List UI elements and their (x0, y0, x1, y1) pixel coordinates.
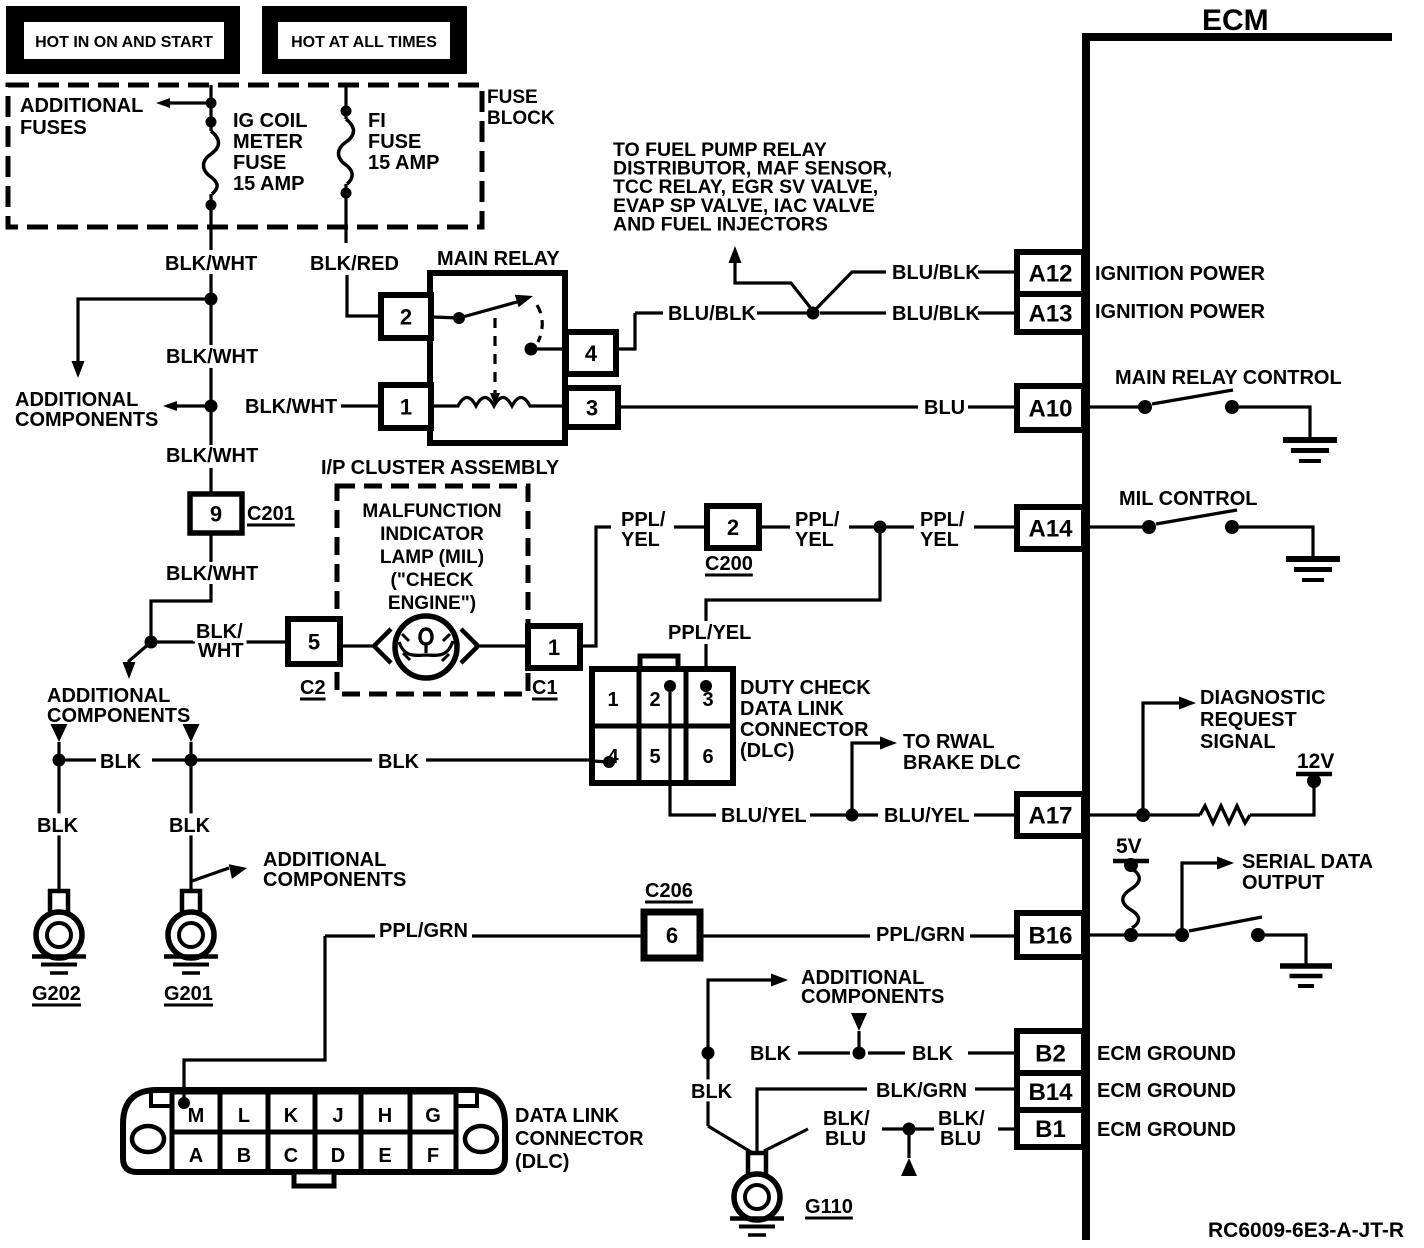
svg-text:HOT AT ALL TIMES: HOT AT ALL TIMES (291, 34, 437, 51)
arrowhead additional comp left B (183, 724, 200, 742)
wire arrow to additional components 2 (174, 404, 211, 407)
wire blk/wht to junction 3 (151, 584, 211, 642)
node blk bus left (53, 754, 66, 767)
data link connector body (123, 1090, 505, 1172)
serial switch right node (1251, 928, 1265, 942)
arrowhead to fuel pump (729, 246, 742, 263)
wire blk/blu diag (764, 1129, 808, 1151)
arrowhead to rwal (880, 737, 897, 750)
svg-text:D: D (331, 1145, 345, 1167)
wire blk/blu mid2 (915, 1127, 934, 1130)
svg-text:RC6009-6E3-A-JT-R: RC6009-6E3-A-JT-R (1208, 1219, 1404, 1242)
I/P cluster dashed box (337, 486, 528, 694)
label TO FUEL PUMP RELAY note (613, 139, 892, 235)
label IG COIL METER FUSE 15 AMP (233, 110, 307, 195)
fuse FI FUSE 15 AMP symbol (339, 119, 354, 184)
svg-text:15 AMP: 15 AMP (233, 173, 305, 195)
svg-text:PPL/: PPL/ (621, 509, 666, 531)
svg-text:ADDITIONAL: ADDITIONAL (15, 389, 138, 411)
wire lamp to pin1 (480, 644, 528, 647)
wire duty pin2 drop (670, 692, 716, 815)
wire g202 drop (57, 760, 60, 889)
svg-text:DATA LINK: DATA LINK (740, 698, 845, 720)
label TO RWAL BRAKE DLC (903, 731, 1021, 774)
svg-text:BLK/WHT: BLK/WHT (166, 445, 258, 467)
svg-text:YEL: YEL (920, 529, 959, 551)
wire ppl/grn right (700, 934, 870, 937)
svg-text:B: B (237, 1145, 251, 1167)
svg-text:BLK/GRN: BLK/GRN (876, 1080, 967, 1102)
svg-text:MALFUNCTION: MALFUNCTION (362, 501, 501, 522)
wire blk/grn riser (757, 1089, 867, 1152)
arrowhead additional comp right (229, 864, 247, 879)
mil control switch right node (1225, 520, 1239, 534)
svg-text:AND FUEL INJECTORS: AND FUEL INJECTORS (613, 213, 828, 235)
ECM pin A12 (1017, 252, 1084, 294)
additional comp b2 stem (857, 1031, 860, 1047)
svg-text:9: 9 (210, 501, 222, 526)
svg-text:CONNECTOR: CONNECTOR (515, 1128, 644, 1150)
data link connector letters (188, 1105, 441, 1167)
svg-text:3: 3 (586, 395, 598, 420)
svg-text:HOT IN ON AND START: HOT IN ON AND START (35, 34, 213, 51)
wire pin3 to BLU (618, 405, 918, 408)
relay dashed link arrowhead (490, 393, 500, 406)
svg-text:C: C (284, 1145, 298, 1167)
label ADDITIONAL COMPONENTS 1 (15, 389, 158, 431)
main relay pin 2 box (381, 295, 431, 338)
label C200 (705, 553, 753, 575)
wire switch to ground A10 (1239, 407, 1310, 438)
svg-text:4: 4 (585, 341, 598, 366)
svg-text:FI: FI (368, 110, 386, 132)
wire blk/wht below C201 (209, 533, 212, 562)
additional comp left B stem (189, 742, 192, 754)
label C2 (300, 677, 326, 699)
wire pin5 to lamp (340, 644, 372, 647)
svg-text:PPL/GRN: PPL/GRN (876, 924, 965, 946)
node ppl/yel junction (874, 521, 887, 534)
svg-text:SIGNAL: SIGNAL (1200, 731, 1276, 753)
svg-text:DATA LINK: DATA LINK (515, 1105, 620, 1127)
svg-text:BLU/BLK: BLU/BLK (892, 303, 980, 325)
data link connector bottom tab (294, 1172, 334, 1186)
node blk junction b2 (853, 1047, 866, 1060)
label ADDITIONAL COMPONENTS 3 (47, 685, 190, 727)
svg-text:FUSE: FUSE (233, 152, 286, 174)
svg-text:ECM GROUND: ECM GROUND (1097, 1080, 1236, 1102)
svg-text:(DLC): (DLC) (515, 1151, 569, 1173)
node blk/blu junction (903, 1123, 916, 1136)
svg-text:BLOCK: BLOCK (487, 108, 555, 129)
ECM pin B2 (1017, 1031, 1084, 1075)
serial switch arm (1189, 917, 1262, 931)
svg-text:DUTY CHECK: DUTY CHECK (740, 677, 871, 699)
arrowhead diagnostic request (1179, 697, 1196, 710)
wire ppl/yel drop (706, 527, 880, 621)
ground terminal G110 (730, 1153, 784, 1235)
svg-text:BLK/: BLK/ (938, 1108, 985, 1130)
label BLK/ WHT twoline a (193, 619, 246, 643)
node fi fuse bottom (341, 188, 352, 199)
label DUTY CHECK DATA LINK CONNECTOR (740, 677, 871, 762)
header box HOT AT ALL TIMES (262, 6, 467, 74)
wire blk bus into duty cell4 (592, 761, 609, 762)
arrowhead additional components 3 (123, 662, 136, 679)
svg-text:ADDITIONAL: ADDITIONAL (263, 849, 386, 871)
fuse block dashed box (8, 85, 482, 227)
svg-text:("CHECK: ("CHECK (391, 570, 474, 591)
wire blu/yel to A17 (974, 813, 1017, 816)
svg-text:(DLC): (DLC) (740, 740, 794, 762)
duty pin 3 node (700, 680, 712, 692)
svg-text:BLU/BLK: BLU/BLK (668, 303, 756, 325)
svg-text:INDICATOR: INDICATOR (380, 524, 484, 545)
wire blu/blk to junction (757, 311, 807, 314)
svg-text:BLK/WHT: BLK/WHT (165, 253, 257, 275)
svg-text:6: 6 (702, 746, 713, 768)
wire blk/blu mid (882, 1127, 903, 1130)
wire additional comp arrow bottom (708, 980, 772, 1053)
wire blk/blu to B1 (998, 1127, 1017, 1130)
wire A10 to switch (1090, 405, 1140, 408)
wire junction to label3 (886, 525, 914, 528)
wire junction to resistor (1150, 813, 1200, 816)
svg-text:WHT: WHT (198, 640, 244, 662)
node DLC pin M (178, 1097, 190, 1109)
data link connector notch right (456, 1090, 477, 1106)
svg-text:BLK: BLK (912, 1043, 954, 1065)
svg-text:5V: 5V (1116, 835, 1142, 858)
node blu/yel junction (846, 809, 859, 822)
node blk bus mid (185, 754, 198, 767)
svg-text:BLK: BLK (100, 751, 142, 773)
svg-text:A12: A12 (1028, 261, 1072, 288)
ECM boundary line (1086, 37, 1392, 1240)
svg-text:ADDITIONAL: ADDITIONAL (47, 685, 170, 707)
svg-text:C2: C2 (300, 677, 326, 699)
node fi fuse top (341, 106, 352, 117)
connector C201 pin 9 box (190, 494, 242, 533)
lamp bracket left (374, 629, 391, 663)
wire g201 branch diag (192, 868, 229, 881)
svg-text:1: 1 (607, 689, 618, 711)
ECM pin B14 (1017, 1073, 1084, 1110)
relay dashed link (493, 318, 496, 399)
node blk/wht junction 1 (205, 293, 218, 306)
svg-text:LAMP (MIL): LAMP (MIL) (380, 547, 484, 568)
5V terminal node (1124, 858, 1138, 872)
svg-text:BLK/WHT: BLK/WHT (245, 396, 337, 418)
wire blk to B2 (968, 1051, 1017, 1054)
header box HOT IN ON AND START (6, 6, 240, 74)
wire switch to ground B16 (1265, 935, 1306, 964)
node ig fuse upper (206, 117, 217, 128)
wire blk/red to pin2 (347, 275, 381, 316)
label BLK g202 (34, 813, 81, 837)
svg-text:ENGINE"): ENGINE") (388, 593, 476, 614)
mil control switch left node (1142, 520, 1156, 534)
arrowhead additional comp blk/blu (901, 1158, 917, 1176)
wire into DLC pin M (182, 1085, 185, 1103)
svg-text:2: 2 (400, 304, 412, 329)
data link connector right hole (465, 1126, 497, 1152)
svg-text:BLK/RED: BLK/RED (310, 253, 399, 275)
wire ppl/yel into duty pin3 (704, 644, 707, 686)
12V terminal bar (1296, 772, 1332, 777)
wire blk/grn to B14 (975, 1087, 1017, 1090)
label C1 (532, 677, 558, 699)
svg-text:BLU/YEL: BLU/YEL (721, 805, 807, 827)
ground terminal G201 (164, 891, 218, 973)
wire blk/wht trunk mid (209, 368, 212, 445)
data link connector notch left (151, 1090, 172, 1106)
node blu/blk junction (807, 307, 820, 320)
svg-text:IGNITION POWER: IGNITION POWER (1095, 263, 1266, 285)
svg-text:MAIN RELAY CONTROL: MAIN RELAY CONTROL (1115, 367, 1342, 389)
relay fixed contact (525, 343, 538, 356)
svg-text:A14: A14 (1028, 516, 1073, 543)
arrowhead additional fuses (156, 98, 170, 108)
wire blk/wht trunk to C201 (209, 468, 212, 494)
main relay control switch arm (1152, 390, 1233, 404)
svg-text:L: L (238, 1105, 250, 1127)
wire junction3 to C2 pin5 (151, 640, 288, 643)
wire branch to additional components 1 (78, 299, 211, 367)
svg-text:BLU/YEL: BLU/YEL (884, 805, 970, 827)
relay contact to pin4 (531, 347, 566, 350)
wire ppl/grn left 2 (472, 934, 644, 937)
wire to C200 (674, 525, 707, 528)
label G202 (32, 983, 81, 1005)
wire fi fuse top (344, 85, 347, 119)
wire fi fuse bottom (344, 184, 347, 243)
main relay control switch right node (1225, 400, 1239, 414)
main relay pin 3 box (566, 388, 618, 427)
fuse IG COIL METER FUSE 15 AMP symbol (204, 131, 219, 194)
wire ppl/grn left (325, 934, 375, 937)
node blk junction bottom (702, 1047, 715, 1060)
svg-text:FUSE: FUSE (487, 87, 538, 108)
svg-text:ADDITIONAL: ADDITIONAL (20, 95, 143, 117)
arrowhead additional components 2 (163, 401, 177, 411)
wire resistor to 12V (1250, 786, 1314, 815)
wire ppl/grn riser from DLC (184, 936, 325, 1100)
wire blk g110 diag (708, 1126, 751, 1152)
label FI FUSE 15 AMP (368, 110, 440, 174)
svg-text:SERIAL DATA: SERIAL DATA (1242, 851, 1373, 873)
svg-text:FUSE: FUSE (368, 131, 421, 153)
svg-text:FUSES: FUSES (20, 117, 87, 139)
wire blk bus 3 (426, 758, 592, 761)
main relay box (430, 273, 565, 443)
svg-text:1: 1 (400, 394, 412, 419)
svg-text:COMPONENTS: COMPONENTS (47, 705, 190, 727)
svg-text:G202: G202 (32, 983, 81, 1005)
svg-text:G: G (425, 1105, 441, 1127)
svg-text:BLK: BLK (750, 1043, 792, 1065)
svg-text:COMPONENTS: COMPONENTS (801, 986, 944, 1008)
label ADDITIONAL COMPONENTS bottom (801, 967, 944, 1008)
ECM pin A14 (1017, 507, 1084, 549)
wire ig coil fuse top (209, 85, 212, 131)
main relay control switch left node (1138, 400, 1152, 414)
blk/blu stem down (907, 1129, 910, 1158)
relay switch arm arrowhead (515, 295, 533, 307)
wire branch additional components 3 (129, 642, 151, 668)
ground mil control (1286, 559, 1340, 580)
label DIAGNOSTIC REQUEST SIGNAL (1200, 687, 1326, 753)
svg-text:IG COIL: IG COIL (233, 110, 307, 132)
wire junction to A13 label (820, 311, 886, 314)
wire pin4 riser to label (635, 311, 663, 314)
wire blk bus 2 (152, 758, 372, 761)
svg-text:B1: B1 (1035, 1116, 1066, 1143)
svg-text:PPL/: PPL/ (920, 509, 965, 531)
svg-text:MAIN RELAY: MAIN RELAY (437, 248, 560, 270)
wire blu/yel mid (810, 813, 846, 816)
svg-text:BLU: BLU (924, 397, 965, 419)
svg-text:COMPONENTS: COMPONENTS (263, 869, 406, 891)
svg-text:12V: 12V (1297, 750, 1334, 773)
svg-text:K: K (284, 1105, 299, 1127)
svg-text:5: 5 (308, 629, 320, 654)
ECM pin B16 (1017, 913, 1084, 957)
label MALFUNCTION INDICATOR LAMP (362, 501, 501, 614)
relay switch arm (459, 300, 524, 318)
label FUSE BLOCK (487, 87, 555, 129)
mil control switch arm (1156, 510, 1237, 524)
svg-text:YEL: YEL (795, 529, 834, 551)
wire junction diag to A12 (815, 272, 886, 310)
svg-text:E: E (378, 1145, 391, 1167)
svg-text:1: 1 (548, 635, 560, 660)
label ADDITIONAL COMPONENTS right (263, 849, 406, 891)
svg-text:M: M (188, 1105, 205, 1127)
ground serial data (1280, 966, 1332, 986)
connector C2 pin 5 box (288, 619, 340, 664)
wire blu/blk to A13 (978, 311, 1017, 314)
svg-text:G201: G201 (164, 983, 213, 1005)
label C201 (247, 503, 295, 525)
svg-text:6: 6 (666, 923, 678, 948)
svg-text:ECM: ECM (1202, 4, 1269, 37)
wire diag request riser (1143, 703, 1182, 815)
resistor R1 zigzag (1200, 806, 1250, 823)
svg-text:I/P CLUSTER ASSEMBLY: I/P CLUSTER ASSEMBLY (321, 457, 560, 479)
label ADDITIONAL FUSES (20, 95, 143, 139)
svg-text:BLK/: BLK/ (823, 1108, 870, 1130)
wire g201 drop (189, 760, 192, 889)
svg-text:IGNITION POWER: IGNITION POWER (1095, 301, 1266, 323)
svg-text:TO RWAL: TO RWAL (903, 731, 994, 753)
ECM pin A17 (1017, 794, 1084, 836)
svg-text:A: A (189, 1145, 203, 1167)
svg-text:H: H (378, 1105, 392, 1127)
wire arrow to additional fuses (168, 101, 209, 104)
arrowhead additional components 1 (72, 361, 85, 378)
svg-text:ECM GROUND: ECM GROUND (1097, 1119, 1236, 1141)
arrowhead serial data (1217, 857, 1234, 870)
svg-text:B16: B16 (1028, 923, 1072, 950)
connector C200 pin 2 box (707, 506, 759, 548)
wire blu/blk to A12 (978, 270, 1017, 273)
relay switch arm stub (433, 317, 459, 318)
duty pin 2 node (664, 680, 676, 692)
node ig fuse bottom (206, 200, 217, 211)
svg-text:F: F (427, 1145, 439, 1167)
svg-text:DIAGNOSTIC: DIAGNOSTIC (1200, 687, 1326, 709)
svg-text:J: J (332, 1105, 343, 1127)
wire switch to ground A14 (1239, 527, 1313, 557)
wire C200 to label (759, 525, 790, 528)
additional comp left A stem (57, 742, 60, 754)
svg-text:PPL/GRN: PPL/GRN (379, 920, 468, 942)
svg-text:15 AMP: 15 AMP (368, 152, 440, 174)
svg-text:OUTPUT: OUTPUT (1242, 872, 1324, 894)
svg-text:2: 2 (649, 689, 660, 711)
svg-text:BLK: BLK (691, 1081, 733, 1103)
svg-text:C1: C1 (532, 677, 558, 699)
wire blk b2 mid (798, 1051, 850, 1054)
wire blu/yel mid2 (858, 813, 878, 816)
relay coil (433, 398, 563, 407)
svg-text:BLK/WHT: BLK/WHT (166, 346, 258, 368)
label BLK g110 (688, 1079, 735, 1103)
node blk/wht junction 2 (205, 400, 218, 413)
relay switch pivot (453, 312, 465, 324)
wire BLU to A10 (968, 405, 1017, 408)
duty pin 4 node (603, 756, 615, 768)
ground main relay control (1283, 440, 1337, 461)
wire pin1 to junction (341, 404, 381, 407)
wire blk b2 mid2 (868, 1051, 905, 1054)
svg-text:BLK: BLK (378, 751, 420, 773)
svg-text:YEL: YEL (621, 529, 660, 551)
wire b16 right (1090, 933, 1175, 936)
ECM pin A13 (1017, 294, 1084, 332)
wire C1 riser to PPL/YEL (580, 527, 611, 646)
svg-text:B14: B14 (1028, 1079, 1073, 1106)
data link connector grid (172, 1092, 456, 1172)
wire ppl/grn to B16 (970, 934, 1017, 937)
wire junction diag up-left to arrow (735, 258, 813, 311)
svg-text:BLK/WHT: BLK/WHT (166, 563, 258, 585)
wire blk bus (59, 758, 96, 761)
svg-text:BLU: BLU (940, 1128, 981, 1150)
svg-text:ECM GROUND: ECM GROUND (1097, 1043, 1236, 1065)
wire blk/wht trunk upper (209, 243, 212, 250)
svg-text:B2: B2 (1035, 1041, 1066, 1068)
svg-text:MIL CONTROL: MIL CONTROL (1119, 488, 1258, 510)
resistor R2 squiggle (1123, 868, 1140, 928)
svg-text:G110: G110 (805, 1196, 853, 1218)
label G110 (805, 1196, 853, 1218)
relay switch dashed arc (537, 305, 542, 342)
main relay pin 4 box (566, 332, 616, 374)
wire A17 right (1090, 813, 1136, 816)
wire blk g110 drop (706, 1053, 709, 1126)
wire junction to rwal arrow (852, 743, 884, 815)
connector C206 pin 6 box (644, 912, 700, 958)
node b16 junction 1 (1124, 928, 1138, 942)
ECM pin A10 (1017, 386, 1084, 430)
wire label to junction (849, 525, 874, 528)
svg-text:2: 2 (727, 515, 739, 540)
arrowhead additional comp bottom (771, 974, 788, 987)
svg-text:CONNECTOR: CONNECTOR (740, 719, 869, 741)
data link connector left hole (132, 1126, 164, 1152)
